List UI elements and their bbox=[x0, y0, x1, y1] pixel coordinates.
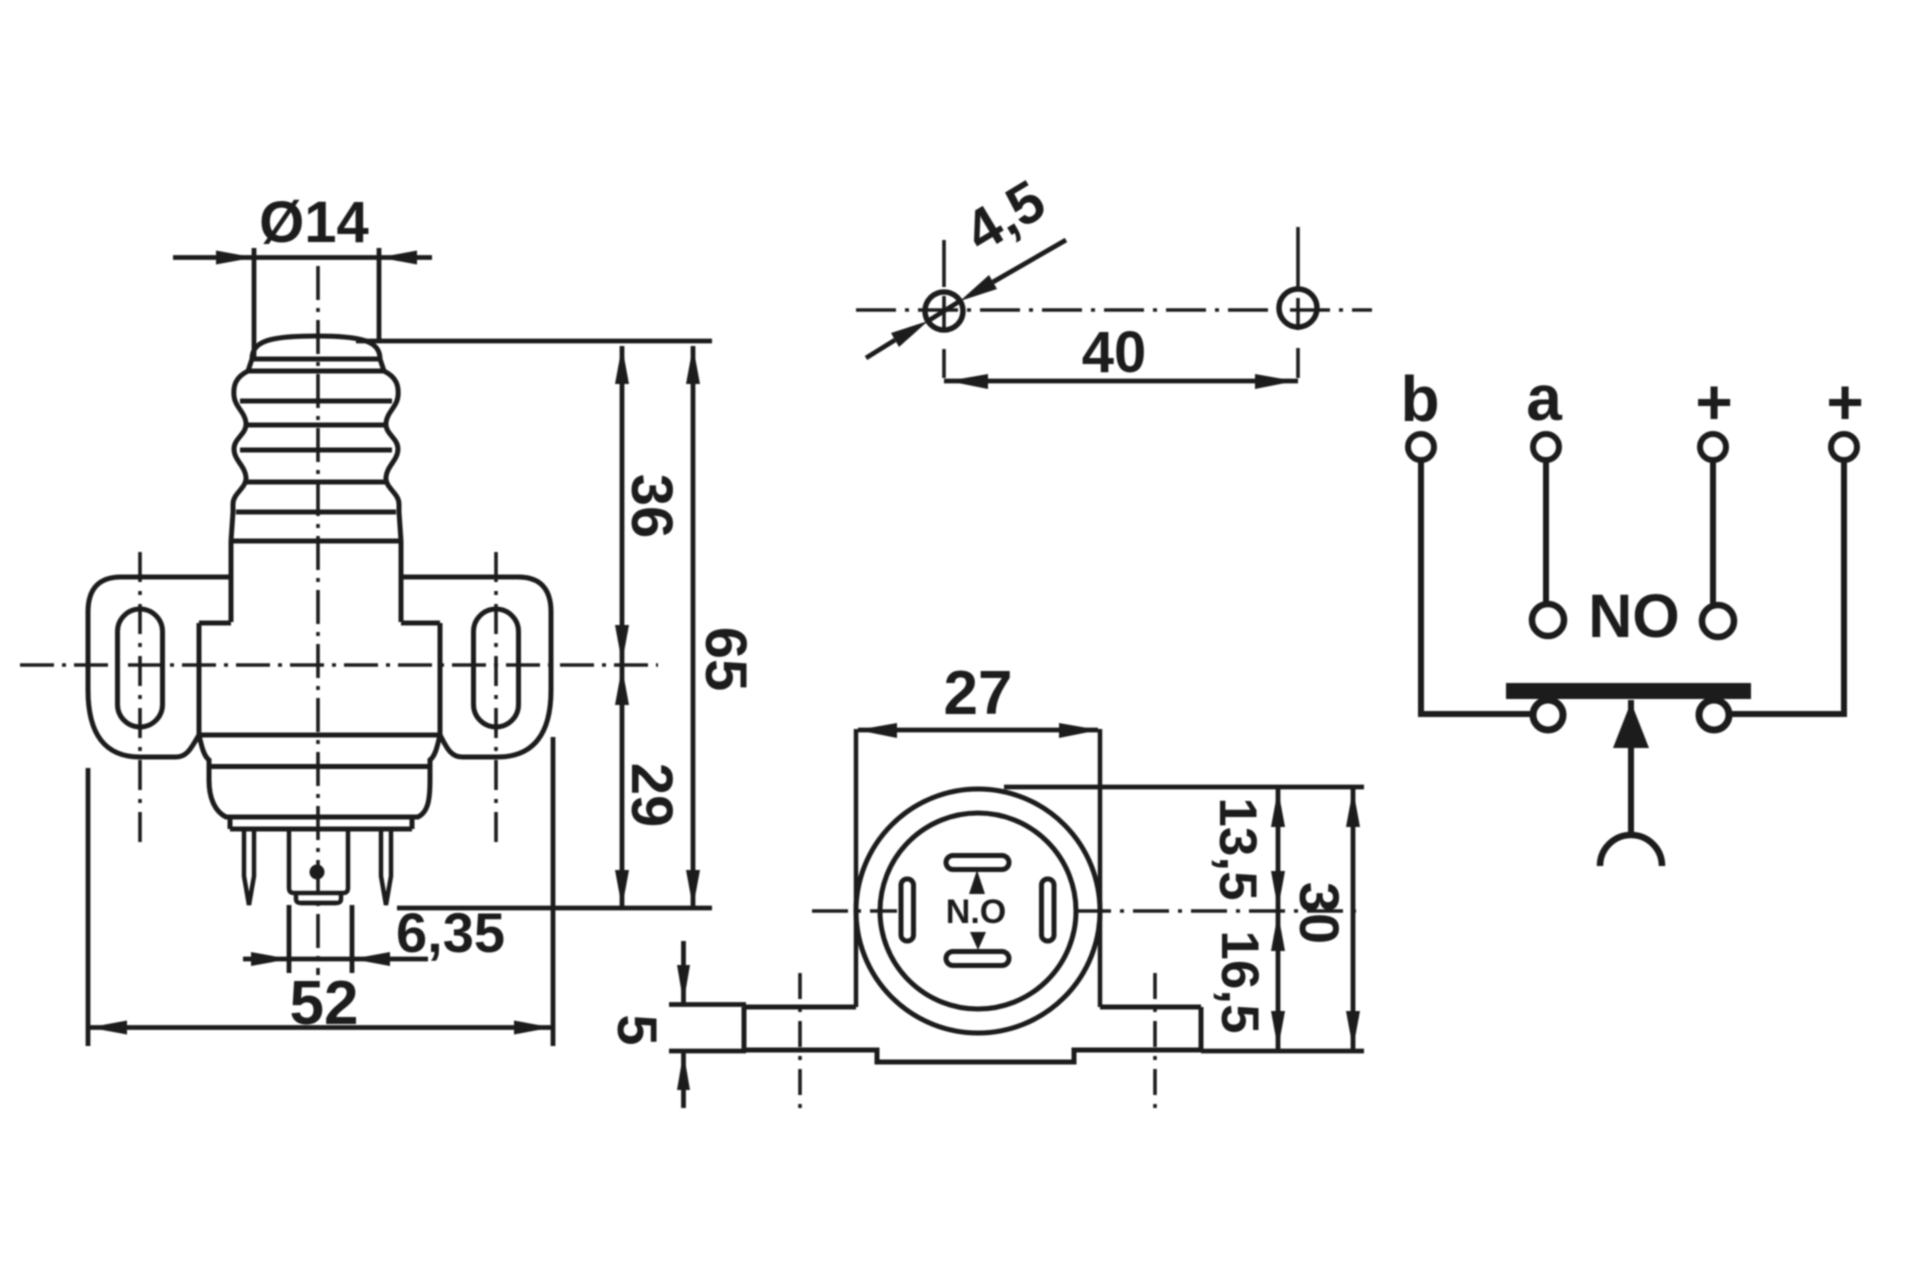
wire from plus left bbox=[1710, 460, 1716, 604]
actuator arrow bbox=[1613, 700, 1649, 838]
actuator cam arc bbox=[1600, 835, 1662, 866]
dimension 5 bbox=[606, 941, 746, 1108]
contact bridge bar bbox=[1506, 683, 1751, 699]
terminal slot bottom bbox=[946, 952, 1009, 966]
dimension 13,5 and 16,5 shared line bbox=[1004, 787, 1364, 1051]
dimension 30 bbox=[1288, 787, 1360, 1051]
svg-text:N.O: N.O bbox=[946, 893, 1006, 931]
svg-text:16,5: 16,5 bbox=[1210, 930, 1269, 1033]
dimension 52 bbox=[88, 737, 553, 1046]
wire centerline horizontal hole axis bbox=[856, 308, 1372, 312]
connector housing sides bbox=[856, 729, 1100, 1007]
terminal plus left bbox=[1700, 434, 1726, 460]
svg-text:13,5: 13,5 bbox=[1208, 797, 1267, 900]
wire centerline connector horizontal bbox=[812, 909, 1358, 913]
svg-text:a: a bbox=[1526, 362, 1562, 434]
dimension 36 and 29 shared line bbox=[356, 341, 712, 908]
svg-text:65: 65 bbox=[693, 627, 758, 692]
wire from plus right bbox=[1730, 460, 1844, 714]
svg-text:40: 40 bbox=[1082, 320, 1147, 385]
connector outer circle bbox=[856, 789, 1100, 1033]
body step shoulder bbox=[199, 735, 440, 767]
terminal slot left bbox=[901, 879, 914, 941]
plunger cap bbox=[248, 336, 384, 371]
mounting hole left 4.5 bbox=[925, 292, 963, 330]
wire centerline right foot bbox=[1153, 973, 1157, 1110]
svg-text:+: + bbox=[1826, 366, 1863, 438]
terminal pin right bbox=[381, 829, 391, 905]
svg-text:Ø14: Ø14 bbox=[259, 190, 369, 255]
label NO bbox=[1588, 582, 1680, 650]
mounting base feet bbox=[744, 1007, 1201, 1062]
label N.O bbox=[946, 893, 1006, 931]
contact a fixed bbox=[1532, 604, 1564, 636]
svg-text:b: b bbox=[1400, 363, 1439, 435]
node label b bbox=[1400, 363, 1439, 435]
dimension 27 bbox=[857, 659, 1099, 738]
svg-text:NO: NO bbox=[1588, 582, 1680, 650]
svg-text:52: 52 bbox=[290, 969, 359, 1038]
mounting bracket plate bbox=[88, 577, 551, 757]
contact bridge left bbox=[1533, 700, 1563, 730]
plunger shaft bbox=[231, 541, 401, 622]
svg-text:27: 27 bbox=[944, 659, 1013, 728]
dimension 65 bbox=[686, 346, 758, 908]
node label a bbox=[1526, 362, 1562, 434]
switch body block bbox=[199, 623, 440, 735]
svg-text:30: 30 bbox=[1288, 882, 1351, 944]
wire from b bbox=[1421, 460, 1532, 714]
terminal plus right bbox=[1831, 434, 1857, 460]
svg-text:+: + bbox=[1695, 366, 1732, 438]
arrow up marker bbox=[969, 870, 985, 894]
svg-text:36: 36 bbox=[619, 474, 684, 539]
wire centerline left slot axis bbox=[138, 552, 142, 848]
connector inner circle bbox=[880, 813, 1076, 1009]
dimension 4,5 leader bbox=[866, 168, 1066, 358]
node center dot on blade bbox=[310, 865, 325, 880]
node label plus right bbox=[1826, 366, 1863, 438]
wire centerline left hole vertical bbox=[942, 240, 946, 378]
wire centerline right slot axis bbox=[494, 552, 498, 848]
wire from a bbox=[1543, 460, 1549, 603]
arrow down marker bbox=[970, 932, 986, 950]
wire centerline right hole vertical bbox=[1296, 227, 1300, 378]
wire centerline left foot bbox=[798, 973, 802, 1110]
svg-text:6,35: 6,35 bbox=[396, 901, 505, 964]
contact plus fixed bbox=[1702, 605, 1734, 637]
bracket right slot bbox=[474, 609, 519, 727]
terminal slot top bbox=[946, 856, 1009, 870]
contact bridge right bbox=[1699, 700, 1729, 730]
node label plus left bbox=[1695, 366, 1732, 438]
dimension Ø14 bbox=[173, 190, 432, 360]
wire centerline horizontal bracket axis bbox=[20, 663, 658, 667]
rubber bellows boot bbox=[231, 371, 401, 541]
terminal a bbox=[1533, 434, 1559, 460]
terminal blade center 6.35mm bbox=[289, 829, 348, 903]
bracket left slot bbox=[118, 609, 163, 727]
dimension 6,35 bbox=[243, 901, 505, 973]
terminal pin left bbox=[244, 829, 254, 905]
body lower cup bbox=[209, 766, 430, 829]
wire centerline vertical main axis bbox=[316, 266, 320, 975]
svg-text:5: 5 bbox=[606, 1014, 669, 1045]
svg-text:4,5: 4,5 bbox=[954, 168, 1057, 265]
mounting hole right bbox=[1279, 289, 1317, 327]
dimension 40 bbox=[944, 320, 1298, 389]
terminal b bbox=[1408, 434, 1434, 460]
terminal slot right bbox=[1042, 879, 1055, 941]
svg-text:29: 29 bbox=[619, 763, 684, 828]
